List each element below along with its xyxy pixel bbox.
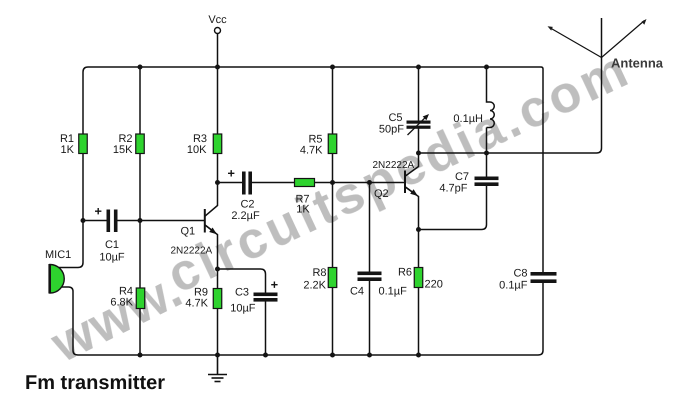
resistor R2 — [136, 134, 145, 154]
wire C7 top to inductor bottom node — [486, 153, 488, 177]
node rail C4 — [367, 353, 372, 358]
node Q2 collector — [416, 151, 421, 156]
wire left vertical through R1 down to mic top — [58, 72, 84, 268]
node Q2 emitter R6 — [416, 227, 421, 232]
node rail R6 — [416, 353, 421, 358]
svg-text:50pF: 50pF — [379, 124, 404, 136]
wire C4 vertical top — [369, 183, 371, 272]
svg-text:0.1µF: 0.1µF — [499, 280, 528, 292]
svg-text:4.7pF: 4.7pF — [439, 183, 467, 195]
svg-text:C1: C1 — [105, 239, 119, 251]
resistor R4 — [136, 288, 145, 309]
svg-text:2.2K: 2.2K — [303, 280, 326, 292]
wire Q1 emitter node to C3 — [218, 269, 266, 293]
svg-text:4.7K: 4.7K — [185, 298, 208, 310]
wire top rail Vcc — [83, 67, 543, 72]
capacitor C8 plates — [531, 272, 557, 283]
node top rail R5 — [330, 65, 335, 70]
transistor Q1 — [205, 209, 217, 234]
wire R3 vertical to Q1 collector — [205, 67, 218, 216]
svg-text:15K: 15K — [113, 144, 133, 156]
svg-text:C5: C5 — [388, 112, 402, 124]
node C1 left — [81, 218, 86, 223]
capacitor C2 plus — [228, 170, 234, 176]
svg-text:2N2222A: 2N2222A — [171, 246, 213, 257]
wire Vcc stem — [217, 34, 219, 67]
wire C5 top segment — [418, 67, 420, 121]
svg-text:Q1: Q1 — [181, 226, 196, 238]
capacitor C3 plates — [254, 293, 278, 302]
node top rail Vcc — [215, 65, 220, 70]
svg-text:10µF: 10µF — [230, 303, 256, 315]
node L1 C7 — [484, 151, 489, 156]
svg-text:C2: C2 — [240, 199, 254, 211]
watermark www.circuitspedia.com — [42, 40, 640, 375]
svg-text:C4: C4 — [350, 286, 364, 298]
svg-text:Vcc: Vcc — [208, 14, 227, 26]
svg-text:10µF: 10µF — [99, 252, 125, 264]
capacitor C7 plates — [475, 177, 499, 187]
node R5 R7 R8 — [330, 180, 335, 185]
node rail ground — [215, 353, 220, 358]
svg-text:C8: C8 — [513, 268, 527, 280]
svg-text:1K: 1K — [296, 204, 310, 216]
wire emitter node to C7 bottom — [419, 186, 487, 230]
resistor R7 horizontal — [295, 179, 315, 187]
svg-text:10K: 10K — [187, 144, 207, 156]
resistor R8 — [328, 268, 337, 288]
svg-text:Fm transmitter: Fm transmitter — [25, 372, 165, 394]
Vcc terminal — [215, 28, 221, 34]
wire C1 left segment — [83, 220, 107, 222]
svg-text:0.1µF: 0.1µF — [379, 286, 408, 298]
svg-text:220: 220 — [425, 279, 443, 291]
inductor L1 0.1uH coil — [490, 102, 494, 128]
microphone MIC1 — [50, 264, 65, 294]
node R3 C2 — [215, 180, 220, 185]
wire R5 R8 vertical — [332, 67, 334, 355]
wire mic bottom to ground rail — [59, 287, 78, 355]
node C1 right base — [138, 218, 143, 223]
capacitor C5 arrow — [408, 117, 427, 135]
svg-text:MIC1: MIC1 — [45, 249, 71, 261]
svg-text:C7: C7 — [455, 171, 469, 183]
wire right vertical C8 top segment — [542, 69, 544, 272]
node Q1 emitter R9 — [215, 267, 220, 272]
wire R2 vertical — [139, 67, 141, 355]
capacitor C1 plates — [107, 210, 118, 233]
wire C1 right segment to Q1 base — [118, 220, 205, 222]
capacitor C1 plus — [95, 208, 101, 214]
node C4 base — [367, 180, 372, 185]
wire C2 left segment — [218, 182, 243, 184]
transistor Q2 — [405, 171, 418, 197]
wire C5 bottom to Q2 collector — [405, 129, 419, 177]
wire right vertical C8 bottom segment — [542, 283, 544, 351]
wire inductor stems — [487, 67, 491, 153]
svg-text:R6: R6 — [398, 267, 412, 279]
svg-text:Q2: Q2 — [374, 188, 389, 200]
ground — [208, 355, 227, 382]
svg-text:R8: R8 — [312, 267, 326, 279]
node rail C3 — [263, 353, 268, 358]
node rail R4 — [138, 353, 143, 358]
wire C4 vertical bottom — [369, 281, 371, 355]
wire Q1 emitter down to rail — [205, 225, 218, 355]
svg-text:0.1µH: 0.1µH — [453, 113, 483, 125]
node top rail L1 — [484, 65, 489, 70]
svg-text:4.7K: 4.7K — [300, 145, 323, 157]
resistor R9 — [213, 289, 222, 309]
wire antenna feed line — [419, 58, 602, 154]
resistor R5 — [328, 134, 337, 154]
node rail R8 — [330, 353, 335, 358]
capacitor C5 plates variable — [407, 121, 431, 129]
capacitor C2 plates — [242, 172, 252, 195]
wire Q2 emitter down through R6 to rail — [405, 187, 419, 355]
resistor R1 — [79, 134, 88, 154]
antenna — [548, 18, 647, 58]
svg-text:Antenna: Antenna — [611, 56, 664, 71]
capacitor C3 plus — [271, 282, 277, 288]
wire C3 bottom to rail — [265, 302, 267, 356]
svg-text:6.8K: 6.8K — [110, 297, 133, 309]
capacitor C4 plates — [358, 272, 382, 282]
node top rail R2 — [138, 65, 143, 70]
wire C2 right segment through R7 to Q2 base — [252, 182, 405, 184]
resistor R3 — [213, 134, 222, 154]
svg-text:2N2222A: 2N2222A — [373, 160, 415, 171]
node top rail C5 — [416, 65, 421, 70]
svg-text:2.2µF: 2.2µF — [231, 210, 260, 222]
svg-text:1K: 1K — [61, 144, 75, 156]
resistor R6 — [414, 268, 423, 288]
svg-text:C3: C3 — [235, 287, 249, 299]
wire bottom ground rail — [78, 351, 543, 356]
